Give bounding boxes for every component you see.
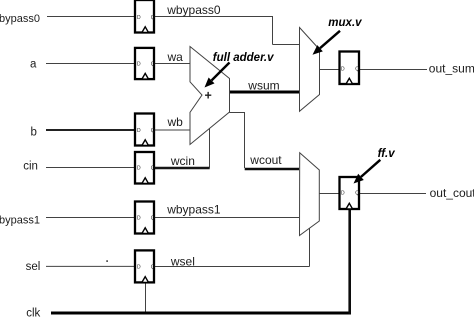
svg-text:D: D (137, 128, 141, 134)
svg-text:D: D (137, 15, 141, 21)
svg-text:bypass1: bypass1 (0, 214, 40, 226)
svg-text:D: D (137, 166, 141, 172)
svg-text:sel: sel (26, 261, 41, 273)
svg-text:wa: wa (167, 50, 184, 64)
svg-text:Q: Q (355, 190, 359, 196)
svg-text:wsum: wsum (247, 78, 279, 92)
svg-text:wcout: wcout (249, 153, 282, 167)
svg-text:D: D (137, 264, 141, 270)
svg-text:D: D (341, 190, 345, 196)
svg-text:wcin: wcin (170, 154, 195, 168)
svg-text:+: + (205, 89, 212, 103)
svg-text:Q: Q (151, 128, 155, 134)
svg-text:bypass0: bypass0 (0, 13, 40, 25)
svg-text:b: b (31, 126, 37, 138)
svg-text:D: D (137, 62, 141, 68)
svg-text:D: D (137, 216, 141, 222)
svg-text:Q: Q (151, 62, 155, 68)
svg-text:wb: wb (167, 115, 184, 129)
svg-text:cin: cin (23, 161, 38, 173)
svg-text:Q: Q (151, 15, 155, 21)
svg-text:clk: clk (26, 308, 40, 319)
svg-text:ff.v: ff.v (378, 148, 396, 160)
svg-text:wsel: wsel (170, 254, 195, 268)
svg-text:Q: Q (151, 264, 155, 270)
svg-text:out_cout: out_cout (430, 186, 474, 200)
svg-text:Q: Q (151, 216, 155, 222)
svg-text:wbypass1: wbypass1 (166, 202, 221, 216)
svg-text:D: D (341, 66, 345, 72)
svg-text:mux.v: mux.v (328, 17, 362, 29)
svg-text:a: a (30, 59, 37, 71)
svg-text:Q: Q (355, 66, 359, 72)
svg-text:wbypass0: wbypass0 (166, 3, 221, 17)
svg-text:Q: Q (151, 166, 155, 172)
svg-text:full adder.v: full adder.v (213, 52, 274, 64)
svg-text:out_sum: out_sum (429, 62, 474, 76)
